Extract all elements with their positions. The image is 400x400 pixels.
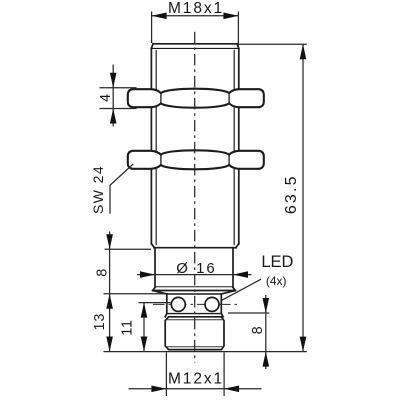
dimension D16 <box>137 274 252 276</box>
led row horizontal centerline <box>153 303 237 305</box>
barrel bottom chamfers <box>151 244 238 248</box>
hex connector outline <box>165 317 224 350</box>
body walls D16 <box>155 248 233 288</box>
dimension 8 right <box>228 295 269 369</box>
barrel chamfer base line <box>151 47 238 49</box>
bottom shared extension line <box>104 351 307 353</box>
flange flare <box>153 287 236 290</box>
dimension M12x1 (bottom) <box>129 352 262 396</box>
hex nut 2 <box>128 150 264 169</box>
svg-text:13: 13 <box>92 313 108 331</box>
svg-text:4: 4 <box>98 94 114 102</box>
barrel top chamfers <box>151 44 238 49</box>
barrel walls M18 <box>151 48 238 243</box>
dimension 4 (nut height) <box>100 65 137 127</box>
svg-text:8: 8 <box>95 269 111 277</box>
barrel top face <box>153 43 237 45</box>
svg-text:M12x1: M12x1 <box>168 371 224 388</box>
led ring walls <box>167 294 222 314</box>
dimension M18x1 (top) <box>152 12 239 49</box>
svg-text:SW 24: SW 24 <box>90 165 106 214</box>
svg-text:M18x1: M18x1 <box>168 0 224 17</box>
svg-text:LED: LED <box>261 253 293 271</box>
led ring bottom edge <box>167 313 222 315</box>
step into led ring <box>153 291 236 295</box>
flare to hex <box>165 314 223 317</box>
barrel bottom edge <box>154 247 236 249</box>
hex chamfer thin lines <box>167 320 222 347</box>
body bottom chamfer thin line <box>155 286 233 288</box>
dimension 8 left and 13 shared line <box>104 232 168 352</box>
svg-text:63.5: 63.5 <box>283 174 300 214</box>
vertical centerline <box>194 32 196 363</box>
flange widest edge <box>153 290 236 292</box>
hex nut 1 <box>128 89 264 108</box>
svg-text:(4x): (4x) <box>266 274 287 288</box>
led window left <box>171 297 185 311</box>
label SW 24 with leader <box>110 164 133 214</box>
svg-text:Ø 16: Ø 16 <box>176 260 217 277</box>
label LED (4x) with leader <box>222 279 261 300</box>
led window right <box>205 297 219 311</box>
svg-text:8: 8 <box>250 326 266 334</box>
led ring top edge <box>167 293 222 295</box>
sensor body outline group <box>151 44 238 350</box>
dimension 11 <box>139 303 171 352</box>
thread root lines <box>156 51 234 245</box>
dimension 63.5 overall <box>237 44 307 351</box>
svg-text:11: 11 <box>120 319 136 336</box>
